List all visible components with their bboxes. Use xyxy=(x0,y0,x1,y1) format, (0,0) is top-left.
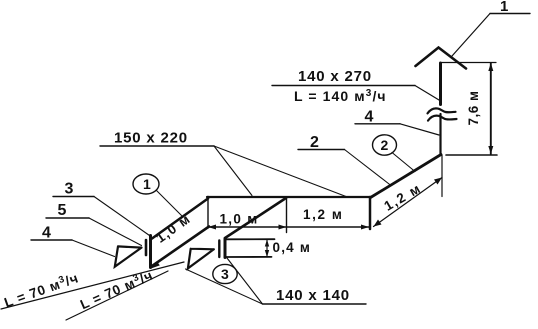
svg-text:4: 4 xyxy=(365,109,374,126)
svg-text:2: 2 xyxy=(310,134,319,151)
svg-text:7,6 м: 7,6 м xyxy=(466,90,481,125)
svg-text:4: 4 xyxy=(42,225,51,242)
svg-text:2: 2 xyxy=(381,137,389,153)
svg-text:0,4 м: 0,4 м xyxy=(273,240,312,255)
svg-text:1: 1 xyxy=(500,0,508,15)
svg-text:140 x 270: 140 x 270 xyxy=(298,68,372,85)
svg-text:L = 140 м3/ч: L = 140 м3/ч xyxy=(294,88,387,104)
svg-text:1,2 м: 1,2 м xyxy=(303,207,344,222)
svg-text:5: 5 xyxy=(58,202,67,219)
svg-text:140 x 140: 140 x 140 xyxy=(276,287,350,304)
svg-text:3: 3 xyxy=(221,266,229,282)
svg-text:3: 3 xyxy=(65,181,74,198)
svg-text:1,0 м: 1,0 м xyxy=(220,212,259,227)
svg-text:1: 1 xyxy=(143,176,151,192)
svg-text:150 x 220: 150 x 220 xyxy=(114,130,188,147)
